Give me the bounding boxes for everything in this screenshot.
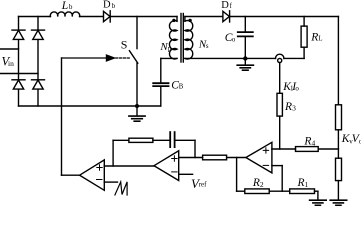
svg-text:R: R	[310, 31, 318, 43]
svg-text:L: L	[318, 35, 322, 42]
svg-text:s: s	[206, 43, 209, 50]
svg-text:p: p	[168, 46, 172, 53]
svg-text:1: 1	[305, 180, 309, 189]
svg-text:3: 3	[292, 103, 296, 112]
svg-text:B: B	[179, 83, 184, 90]
svg-text:o: o	[295, 85, 299, 93]
svg-text:o: o	[232, 36, 236, 43]
svg-text:in: in	[8, 59, 14, 68]
svg-text:R: R	[297, 177, 305, 189]
svg-text:S: S	[121, 38, 128, 52]
svg-text:R: R	[303, 135, 311, 147]
svg-text:L: L	[61, 0, 68, 12]
svg-text:D: D	[103, 0, 111, 10]
svg-text:R: R	[284, 101, 292, 113]
svg-text:f: f	[230, 3, 233, 10]
svg-text:b: b	[112, 3, 116, 10]
svg-text:4: 4	[312, 138, 316, 147]
svg-text:ref: ref	[199, 181, 207, 189]
svg-text:D: D	[221, 0, 229, 11]
svg-text:b: b	[69, 4, 73, 11]
svg-text:R: R	[252, 177, 260, 189]
svg-text:2: 2	[260, 180, 264, 189]
